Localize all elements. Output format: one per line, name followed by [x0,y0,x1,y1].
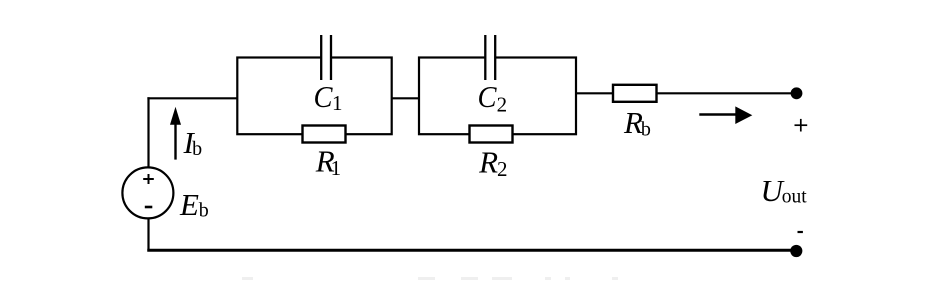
capacitor C2 left plate [484,35,486,80]
wire: between RC block 1 and RC block 2 [392,97,420,99]
wire: bottom return rail [147,249,796,252]
svg-text:R: R [478,144,498,179]
wire: RC block 2 to resistor Rb [576,92,613,94]
output - polarity sign [798,231,803,233]
RC block 1 loop rectangle [237,58,391,135]
svg-text:2: 2 [497,93,508,117]
voltage source Eb plus sign [143,178,154,180]
node: output - terminal dot [790,245,802,257]
current arrow Ib [174,119,176,160]
capacitor C2 right plate [494,35,496,80]
capacitor C1 gap erase [321,54,331,61]
capacitor C2 gap erase [485,54,495,61]
voltage source Eb circle [122,167,173,218]
svg-text:1: 1 [331,156,342,180]
faint cropped caption remnants at bottom [242,277,618,280]
wire: source - terminal down to bottom rail [147,218,149,252]
voltage source Eb minus sign [145,206,153,209]
output + polarity sign [795,124,808,126]
wire: vertical from horizontal wire down to source + terminal [147,97,149,168]
resistor R2 body [470,126,513,143]
svg-text:b: b [192,138,202,160]
svg-text:C: C [314,79,333,114]
svg-text:C: C [478,79,497,114]
capacitor C1 right plate [330,35,332,80]
svg-text:b: b [199,200,209,222]
svg-text:E: E [179,187,199,222]
current direction arrow at output [699,113,737,116]
RC block 2 loop rectangle [419,58,576,135]
node: output + terminal dot [791,87,803,99]
svg-text:2: 2 [497,157,508,181]
svg-text:b: b [641,119,651,141]
svg-text:out: out [782,187,808,208]
wire: input from source top to RC block 1 [147,97,238,99]
resistor Rb body [613,85,657,102]
svg-text:1: 1 [332,91,343,115]
resistor R1 body [303,126,346,143]
capacitor C1 left plate [320,35,322,80]
wire: resistor Rb to output + terminal [657,92,797,94]
